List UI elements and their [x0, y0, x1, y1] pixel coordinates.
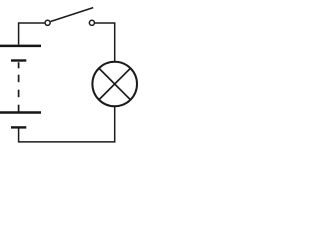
lamp L1 cross filament stroke 2 [99, 68, 131, 100]
battery cell 1 positive plate [0, 45, 41, 48]
wire battery positive to switch left terminal [19, 23, 45, 44]
battery additional-cells dashed link segment 2 [18, 75, 20, 83]
battery additional-cells dashed link segment 3 [18, 90, 20, 98]
switch S1 blade (open) [51, 8, 94, 22]
battery cell 2 positive plate [0, 111, 41, 113]
switch S1 right terminal [89, 20, 94, 25]
wire lamp to battery negative [19, 106, 115, 142]
battery cell 1 negative plate [11, 59, 26, 61]
switch S1 left terminal [45, 20, 50, 25]
lamp L1 cross filament stroke 1 [99, 68, 131, 100]
battery additional-cells dashed link segment 4 [18, 105, 20, 112]
lamp L1 envelope [92, 62, 137, 107]
battery additional-cells dashed link segment 1 [18, 62, 20, 68]
wire switch right terminal to lamp [95, 23, 115, 61]
battery cell 2 negative plate [11, 126, 26, 128]
